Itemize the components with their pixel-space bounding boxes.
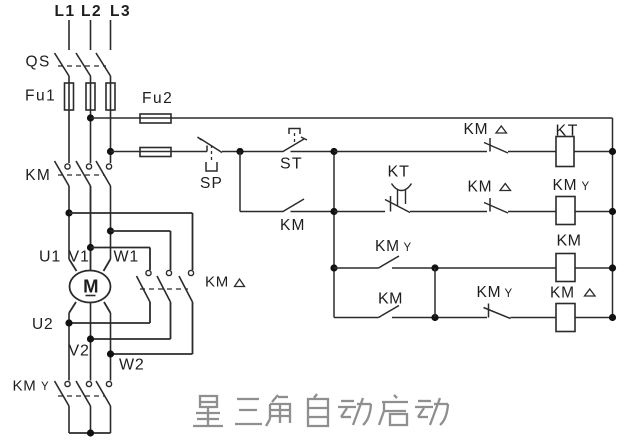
svg-text:L3: L3: [110, 3, 131, 20]
svg-text:Y: Y: [582, 181, 590, 193]
svg-text:V1: V1: [69, 249, 90, 266]
svg-text:KM: KM: [550, 285, 575, 302]
svg-text:L1: L1: [55, 3, 76, 20]
svg-text:KM: KM: [280, 217, 306, 234]
svg-text:KM: KM: [477, 284, 502, 301]
svg-text:Y: Y: [41, 381, 49, 393]
svg-text:KM: KM: [25, 167, 51, 184]
svg-text:KT: KT: [556, 123, 579, 140]
svg-text:W2: W2: [119, 357, 145, 374]
svg-text:KM: KM: [13, 377, 37, 394]
svg-text:KM: KM: [375, 238, 400, 255]
svg-text:L2: L2: [81, 3, 102, 20]
svg-text:Fu1: Fu1: [25, 88, 56, 105]
svg-text:KM: KM: [553, 177, 578, 194]
svg-text:V2: V2: [69, 343, 90, 360]
svg-text:Y: Y: [404, 242, 412, 254]
svg-text:SP: SP: [200, 175, 223, 192]
svg-text:KT: KT: [388, 164, 410, 181]
svg-text:W1: W1: [114, 249, 140, 266]
svg-text:U2: U2: [32, 316, 53, 333]
svg-text:KM: KM: [205, 274, 229, 291]
svg-text:Y: Y: [505, 288, 513, 300]
svg-text:U1: U1: [39, 249, 61, 266]
svg-text:KM: KM: [464, 121, 489, 138]
svg-text:KM: KM: [378, 291, 403, 308]
svg-text:ST: ST: [280, 156, 303, 173]
svg-text:KM: KM: [468, 179, 493, 196]
svg-text:Fu2: Fu2: [142, 90, 173, 107]
svg-text:QS: QS: [26, 54, 51, 71]
svg-text:M: M: [83, 276, 98, 297]
svg-text:KM: KM: [557, 233, 582, 250]
